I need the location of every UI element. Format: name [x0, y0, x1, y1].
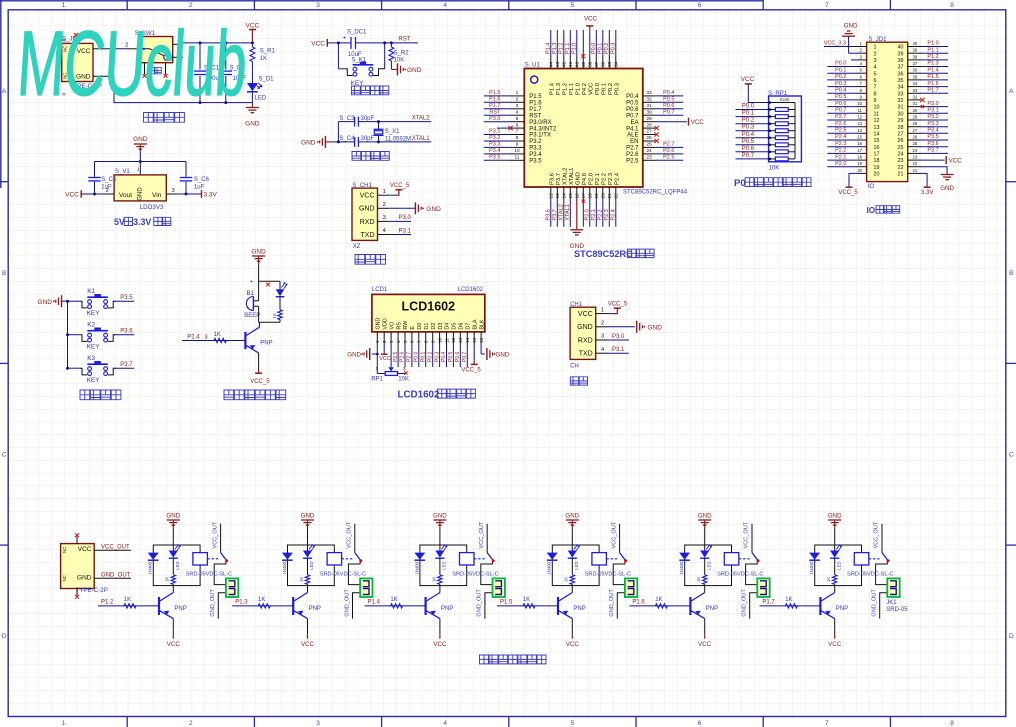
- svg-text:P2.1: P2.1: [835, 154, 846, 160]
- svg-text:10: 10: [514, 148, 520, 154]
- transistor PNP (alarm): [244, 332, 246, 349]
- svg-text:17: 17: [874, 152, 880, 158]
- svg-text:P0.5: P0.5: [626, 101, 639, 107]
- svg-text:P1.3: P1.3: [556, 83, 562, 95]
- svg-text:P3.5: P3.5: [927, 134, 938, 140]
- svg-text:3.3V: 3.3V: [204, 191, 218, 198]
- terminal block JK (screw connector): [625, 578, 637, 597]
- svg-text:C: C: [1009, 452, 1014, 459]
- LED (relay module): [834, 545, 836, 551]
- svg-text:GND: GND: [347, 352, 361, 359]
- left pins 1-11 with wires: [509, 95, 524, 97]
- svg-text:VCC: VCC: [65, 191, 79, 198]
- svg-text:11: 11: [515, 155, 520, 161]
- svg-text:GND: GND: [77, 574, 92, 581]
- svg-text:P0.2: P0.2: [835, 74, 846, 80]
- red mark pin 31: [921, 105, 924, 108]
- svg-text:S_K1: S_K1: [351, 58, 366, 64]
- network resistor element 1: [769, 109, 776, 111]
- svg-text:EN: EN: [630, 139, 638, 145]
- svg-text:XTAL1: XTAL1: [412, 136, 431, 142]
- svg-text:GND: GND: [301, 139, 316, 146]
- pin 0 bottom no-connect: [75, 82, 77, 90]
- relay coil SRD-05VDC-SL-C: [327, 553, 342, 565]
- svg-text:P0: P0: [734, 178, 746, 189]
- svg-text:31: 31: [646, 103, 652, 109]
- svg-text:8: 8: [950, 2, 954, 9]
- svg-text:A: A: [1009, 88, 1014, 95]
- svg-text:7: 7: [825, 2, 829, 9]
- module frame: [420, 545, 467, 586]
- svg-text:PNP: PNP: [573, 606, 585, 612]
- logo MCUclub: [15, 13, 250, 115]
- svg-text:2: 2: [516, 97, 519, 103]
- svg-text:P2.0: P2.0: [589, 173, 595, 185]
- svg-text:6: 6: [516, 122, 519, 128]
- svg-text:GND: GND: [133, 136, 148, 143]
- svg-text:15: 15: [472, 337, 477, 343]
- svg-text:4: 4: [383, 228, 386, 234]
- svg-text:24: 24: [898, 152, 904, 158]
- svg-text:1K: 1K: [431, 577, 436, 582]
- svg-text:1N4007: 1N4007: [679, 559, 684, 575]
- svg-text:1N4007: 1N4007: [282, 559, 287, 575]
- svg-text:P0.7: P0.7: [663, 109, 674, 115]
- network resistor element 2: [769, 116, 776, 118]
- svg-text:GND: GND: [301, 513, 315, 520]
- svg-text:ALE: ALE: [627, 133, 638, 139]
- section label 电源电路: [144, 113, 185, 123]
- svg-text:4: 4: [601, 347, 604, 353]
- svg-text:VCC_OUT: VCC_OUT: [744, 521, 750, 548]
- terminal block JK (screw connector): [226, 578, 238, 597]
- wire and net label P0.3: [736, 130, 769, 132]
- switch unused pins no-connect: [144, 63, 146, 75]
- svg-text:D5: D5: [452, 323, 458, 330]
- switch to terminal wires: [876, 562, 888, 585]
- svg-text:NC: NC: [62, 546, 67, 553]
- left pins 1-20: [858, 46, 867, 48]
- svg-text:GND: GND: [576, 172, 582, 185]
- potentiometer RP1 10K: [390, 344, 392, 368]
- svg-text:24: 24: [646, 148, 652, 154]
- svg-text:S_V1: S_V1: [115, 169, 130, 175]
- svg-text:S_X1: S_X1: [385, 129, 400, 135]
- svg-text:P0.7: P0.7: [835, 108, 846, 114]
- svg-text:P2.3: P2.3: [608, 173, 614, 185]
- svg-text:22: 22: [913, 161, 918, 166]
- svg-text:S_R1: S_R1: [260, 49, 276, 55]
- button K2 (KEY): [68, 322, 135, 351]
- svg-text:4: 4: [516, 109, 519, 115]
- svg-text:25: 25: [646, 142, 652, 148]
- svg-text:P3.1/TX: P3.1/TX: [529, 133, 551, 139]
- ground GND of power circuit: [251, 103, 253, 108]
- wire and net label P0.6: [736, 151, 769, 153]
- svg-text:D: D: [2, 633, 7, 640]
- wire gnd trunk: [62, 300, 68, 302]
- svg-text:1K: 1K: [523, 597, 530, 603]
- wire XTAL2: [338, 121, 354, 123]
- svg-text:LDO3V3: LDO3V3: [140, 204, 164, 211]
- svg-text:EA: EA: [630, 120, 638, 126]
- svg-text:1K: 1K: [390, 597, 397, 603]
- svg-text:30pF: 30pF: [361, 116, 375, 122]
- svg-text:RST: RST: [398, 36, 410, 42]
- power VCC at EA pin 29: [655, 121, 687, 123]
- svg-text:P0.7: P0.7: [462, 351, 468, 362]
- svg-text:16: 16: [575, 193, 581, 199]
- svg-text:P0.0: P0.0: [591, 43, 597, 54]
- svg-text:3: 3: [601, 334, 604, 340]
- svg-text:P1.3: P1.3: [235, 600, 248, 606]
- svg-text:RXD: RXD: [360, 219, 375, 226]
- svg-text:32: 32: [913, 94, 918, 99]
- svg-text:1K: 1K: [124, 597, 131, 603]
- svg-text:P0.4: P0.4: [742, 132, 755, 138]
- svg-text:PNP: PNP: [836, 606, 848, 612]
- svg-text:P0.3: P0.3: [615, 83, 621, 95]
- svg-text:P0.0: P0.0: [835, 61, 846, 67]
- net label VCC_3.3 (pin 1): [824, 46, 858, 48]
- svg-text:20: 20: [874, 172, 880, 178]
- svg-text:GND: GND: [844, 22, 858, 29]
- svg-text:3: 3: [874, 58, 877, 64]
- svg-text:VCC_OUT: VCC_OUT: [611, 521, 617, 548]
- svg-text:P2.4: P2.4: [615, 172, 621, 185]
- svg-text:19: 19: [874, 165, 880, 171]
- section label 按键电路: [80, 390, 121, 400]
- svg-text:19: 19: [594, 193, 600, 199]
- svg-text:33: 33: [898, 91, 904, 97]
- svg-text:LCD1: LCD1: [372, 287, 388, 293]
- svg-text:11.0592M: 11.0592M: [385, 137, 411, 143]
- relay coil SRD-05VDC-SL-C: [193, 553, 208, 565]
- svg-text:35: 35: [607, 61, 613, 67]
- bottom pins 12-22 with wires: [550, 187, 552, 199]
- right pins 40-21: [908, 46, 921, 48]
- svg-text:GND_OUT: GND_OUT: [609, 589, 615, 617]
- svg-text:P0.1: P0.1: [742, 111, 755, 117]
- svg-text:GND: GND: [940, 185, 954, 192]
- wire switch to VCC rail: [180, 42, 252, 44]
- ground GND (LCD pin16 BLK): [480, 344, 482, 355]
- svg-text:P0.4: P0.4: [835, 88, 846, 94]
- svg-text:1K: 1K: [696, 577, 701, 582]
- power VCC (LCD pin2 VDD): [383, 344, 385, 353]
- svg-text:29: 29: [913, 115, 918, 120]
- svg-text:P3.4: P3.4: [489, 148, 500, 154]
- svg-text:P0.2: P0.2: [604, 43, 610, 54]
- LCD data wires with rotated net labels: [397, 344, 399, 368]
- svg-text:VCC: VCC: [828, 641, 842, 648]
- svg-text:P0.3: P0.3: [434, 351, 440, 362]
- module frame: [552, 545, 599, 586]
- base wire with net label P1.3 and resistor 1K: [232, 605, 293, 607]
- network resistor element 4: [769, 130, 776, 132]
- section label 继电器控制电路: [480, 655, 547, 664]
- svg-text:GND: GND: [245, 121, 260, 128]
- svg-text:P2.1: P2.1: [595, 173, 601, 185]
- svg-text:1N4007: 1N4007: [148, 559, 153, 575]
- svg-text:34: 34: [913, 81, 918, 86]
- svg-text:35: 35: [913, 74, 918, 79]
- svg-text:P2.6: P2.6: [400, 351, 406, 362]
- svg-text:6: 6: [874, 78, 877, 84]
- LED (relay module): [172, 545, 174, 551]
- svg-text:10K: 10K: [769, 166, 780, 172]
- connector TYPE-C-2P (relay power): [61, 544, 95, 589]
- svg-text:STC89C52RC_LQFP44: STC89C52RC_LQFP44: [623, 189, 688, 195]
- svg-text:VCC_OUT: VCC_OUT: [212, 521, 218, 548]
- svg-text:26: 26: [913, 135, 918, 140]
- svg-text:41: 41: [568, 61, 574, 67]
- svg-text:GND: GND: [138, 187, 144, 201]
- wire and net label P0.7: [736, 158, 769, 160]
- svg-text:P1.4: P1.4: [927, 67, 938, 73]
- svg-text:+: +: [246, 306, 249, 311]
- svg-text:3: 3: [383, 215, 386, 221]
- svg-text:P2.6: P2.6: [663, 148, 674, 154]
- svg-text:P0.3: P0.3: [835, 81, 846, 87]
- wire and net label P0.1: [736, 116, 769, 118]
- svg-text:22: 22: [898, 165, 904, 171]
- svg-text:32: 32: [646, 97, 652, 103]
- svg-text:9: 9: [874, 98, 877, 104]
- svg-text:S_R2: S_R2: [394, 50, 410, 56]
- svg-text:P0.5: P0.5: [448, 351, 454, 362]
- emitter to VCC: [307, 619, 309, 635]
- svg-text:6: 6: [698, 2, 702, 9]
- svg-text:3: 3: [205, 335, 208, 341]
- svg-text:LED: LED: [309, 561, 314, 569]
- svg-text:P2.6: P2.6: [835, 121, 846, 127]
- svg-text:2: 2: [874, 51, 877, 57]
- svg-text:P2.2: P2.2: [598, 209, 604, 220]
- svg-text:LCD1602: LCD1602: [398, 390, 440, 401]
- svg-text:37: 37: [594, 61, 600, 67]
- wire and net label P0.5: [736, 144, 769, 146]
- svg-text:LED: LED: [574, 561, 579, 569]
- svg-text:S_C4: S_C4: [339, 136, 355, 142]
- svg-text:1K: 1K: [214, 332, 221, 338]
- svg-text:D2: D2: [431, 323, 437, 330]
- base wire with net label P1.2 and resistor 1K: [98, 605, 159, 607]
- svg-text:P0.3: P0.3: [742, 125, 755, 131]
- svg-text:P3.0: P3.0: [927, 101, 938, 107]
- svg-text:P0.0: P0.0: [414, 351, 420, 362]
- module frame: [288, 545, 335, 586]
- svg-text:RST: RST: [529, 113, 541, 119]
- svg-text:15: 15: [568, 193, 574, 199]
- emitter to VCC: [834, 619, 836, 635]
- svg-text:35: 35: [898, 78, 904, 84]
- svg-text:VCC_OUT: VCC_OUT: [101, 544, 130, 550]
- svg-text:SRD-05: SRD-05: [886, 607, 908, 613]
- svg-text:P1.6: P1.6: [529, 101, 542, 107]
- svg-text:1K: 1K: [165, 577, 170, 582]
- svg-text:D7: D7: [466, 323, 472, 330]
- LED (relay module): [307, 545, 309, 551]
- svg-text:1K: 1K: [785, 597, 792, 603]
- LED S_D1: [251, 62, 253, 84]
- svg-text:P3.0: P3.0: [612, 334, 625, 340]
- ground GND (download pin2): [389, 207, 413, 209]
- svg-text:LCD1602: LCD1602: [402, 300, 456, 314]
- svg-text:P1.1: P1.1: [569, 83, 575, 95]
- svg-text:21: 21: [913, 168, 918, 173]
- svg-text:SRD-05VDC-SL-C: SRD-05VDC-SL-C: [320, 571, 366, 577]
- svg-text:K2: K2: [87, 322, 95, 329]
- svg-text:38: 38: [588, 61, 594, 67]
- svg-text:P0.4: P0.4: [441, 351, 447, 362]
- network resistor element 6: [769, 144, 776, 146]
- svg-text:VCC_3.3: VCC_3.3: [824, 41, 846, 47]
- capacitor S_C1 100uF: [199, 43, 201, 70]
- svg-text:STC89C52RC: STC89C52RC: [574, 249, 633, 259]
- svg-text:RW: RW: [403, 321, 409, 330]
- svg-text:P1.1: P1.1: [565, 43, 571, 54]
- svg-text:XTAL2: XTAL2: [412, 116, 431, 122]
- svg-text:GND_OUT: GND_OUT: [872, 589, 878, 617]
- svg-text:GND_OUT: GND_OUT: [210, 589, 216, 617]
- svg-text:Com: Com: [780, 97, 790, 102]
- svg-text:P1.7: P1.7: [762, 600, 775, 606]
- svg-text:P0.2: P0.2: [742, 118, 755, 124]
- svg-text:13: 13: [857, 121, 862, 126]
- svg-text:44: 44: [549, 61, 555, 67]
- svg-text:P0.6: P0.6: [835, 101, 846, 107]
- svg-text:PNP: PNP: [260, 341, 272, 347]
- svg-text:VCC: VCC: [691, 119, 705, 126]
- section label 下载口: [355, 255, 386, 265]
- svg-text:23: 23: [898, 158, 904, 164]
- svg-text:10: 10: [857, 101, 862, 106]
- resistor 1K (relay LED): [834, 558, 836, 575]
- svg-text:P4.1: P4.1: [626, 126, 639, 132]
- transistor PNP (relay driver): [557, 597, 559, 615]
- svg-text:P2.7: P2.7: [663, 142, 674, 148]
- svg-text:P1.0: P1.0: [927, 41, 938, 47]
- emitter to VCC: [571, 619, 573, 635]
- svg-text:40: 40: [913, 41, 918, 46]
- svg-text:P1.0: P1.0: [576, 83, 582, 95]
- svg-text:16: 16: [874, 145, 880, 151]
- svg-text:GND: GND: [166, 513, 180, 520]
- svg-text:S_C3: S_C3: [339, 116, 355, 122]
- svg-text:P1.2: P1.2: [559, 43, 565, 54]
- svg-text:SRD-05VDC-SL-C: SRD-05VDC-SL-C: [847, 571, 893, 577]
- svg-text:30: 30: [898, 111, 904, 117]
- resistor 1K (relay LED): [571, 558, 573, 575]
- svg-text:VCC: VCC: [78, 546, 92, 553]
- no-ERC mark pin 6: [497, 127, 509, 129]
- svg-text:GND: GND: [828, 513, 842, 520]
- svg-text:GND: GND: [577, 324, 593, 331]
- svg-text:LED: LED: [442, 561, 447, 569]
- section label 晶振电路: [352, 152, 389, 161]
- svg-text:P3.0: P3.0: [489, 116, 500, 122]
- svg-text:1uF: 1uF: [194, 185, 205, 191]
- svg-text:18: 18: [588, 193, 594, 199]
- LED (relay module): [704, 545, 706, 551]
- VCC_OUT stub: [94, 549, 131, 551]
- svg-text:5: 5: [571, 720, 575, 727]
- no-connect pins (relay TYPE-C): [76, 537, 78, 544]
- svg-text:D: D: [1009, 633, 1014, 640]
- svg-text:P0.0: P0.0: [595, 83, 601, 95]
- svg-text:P3.6: P3.6: [120, 329, 133, 335]
- capacitor S_DC1 10uF: [350, 37, 352, 49]
- svg-text:1: 1: [516, 90, 519, 96]
- svg-text:34: 34: [614, 61, 620, 67]
- svg-text:P2.4: P2.4: [611, 209, 617, 220]
- bottom rail: [259, 321, 280, 323]
- svg-text:17: 17: [857, 148, 862, 153]
- svg-text:P1.7: P1.7: [489, 103, 500, 109]
- section label 声光报警电路: [224, 390, 286, 400]
- svg-text:NC: NC: [62, 574, 67, 581]
- svg-text:BLK: BLK: [479, 319, 485, 329]
- svg-text:P1.5: P1.5: [500, 600, 513, 606]
- svg-text:12: 12: [451, 337, 456, 343]
- svg-text:VCC_5: VCC_5: [390, 183, 410, 189]
- capacitor S_C4 30pF: [354, 137, 356, 147]
- svg-text:13: 13: [458, 337, 463, 343]
- svg-text:29: 29: [646, 116, 652, 122]
- svg-text:P0.5: P0.5: [663, 97, 674, 103]
- power VCC_5 (serial pin1): [608, 313, 614, 315]
- regulator S_V1 LDO3V3: [114, 175, 166, 201]
- svg-text:GND: GND: [433, 513, 447, 520]
- svg-text:1: 1: [62, 2, 66, 9]
- svg-text:P0.1: P0.1: [420, 351, 426, 362]
- svg-text:11: 11: [858, 108, 863, 113]
- diode 1N4007 flyback: [414, 553, 425, 560]
- svg-text:LED: LED: [836, 561, 841, 569]
- svg-text:XTAL1: XTAL1: [569, 168, 575, 185]
- button S_K1 KEY (reset): [338, 68, 345, 70]
- svg-text:10: 10: [437, 337, 442, 343]
- transistor PNP (relay driver): [689, 597, 691, 615]
- svg-text:P0.6: P0.6: [663, 103, 674, 109]
- net label P3.1 (download pin4): [389, 234, 411, 236]
- svg-text:D3: D3: [438, 323, 444, 330]
- svg-text:1: 1: [874, 45, 877, 51]
- svg-text:2: 2: [106, 188, 109, 194]
- svg-text:1N4007: 1N4007: [809, 559, 814, 575]
- svg-text:1K: 1K: [655, 597, 662, 603]
- svg-text:1K: 1K: [564, 577, 569, 582]
- terminal block JK (screw connector): [493, 578, 505, 597]
- diode 1N4007 flyback: [679, 553, 690, 560]
- section label 复位电路: [352, 86, 389, 95]
- GND_OUT stub: [94, 577, 131, 579]
- svg-text:2: 2: [189, 720, 193, 727]
- svg-text:23: 23: [913, 155, 918, 160]
- svg-text:P2.4: P2.4: [187, 335, 200, 341]
- svg-text:P3.3: P3.3: [529, 146, 542, 152]
- svg-text:3: 3: [516, 103, 519, 109]
- svg-text:KEY: KEY: [87, 377, 101, 384]
- relay switch contact: [752, 553, 759, 562]
- svg-text:GND: GND: [251, 248, 266, 255]
- svg-text:P3.1: P3.1: [927, 108, 938, 114]
- svg-text:P3.7: P3.7: [552, 209, 558, 220]
- svg-text:VCC: VCC: [311, 40, 325, 47]
- svg-text:P0.2: P0.2: [608, 83, 614, 95]
- svg-text:31: 31: [913, 101, 918, 106]
